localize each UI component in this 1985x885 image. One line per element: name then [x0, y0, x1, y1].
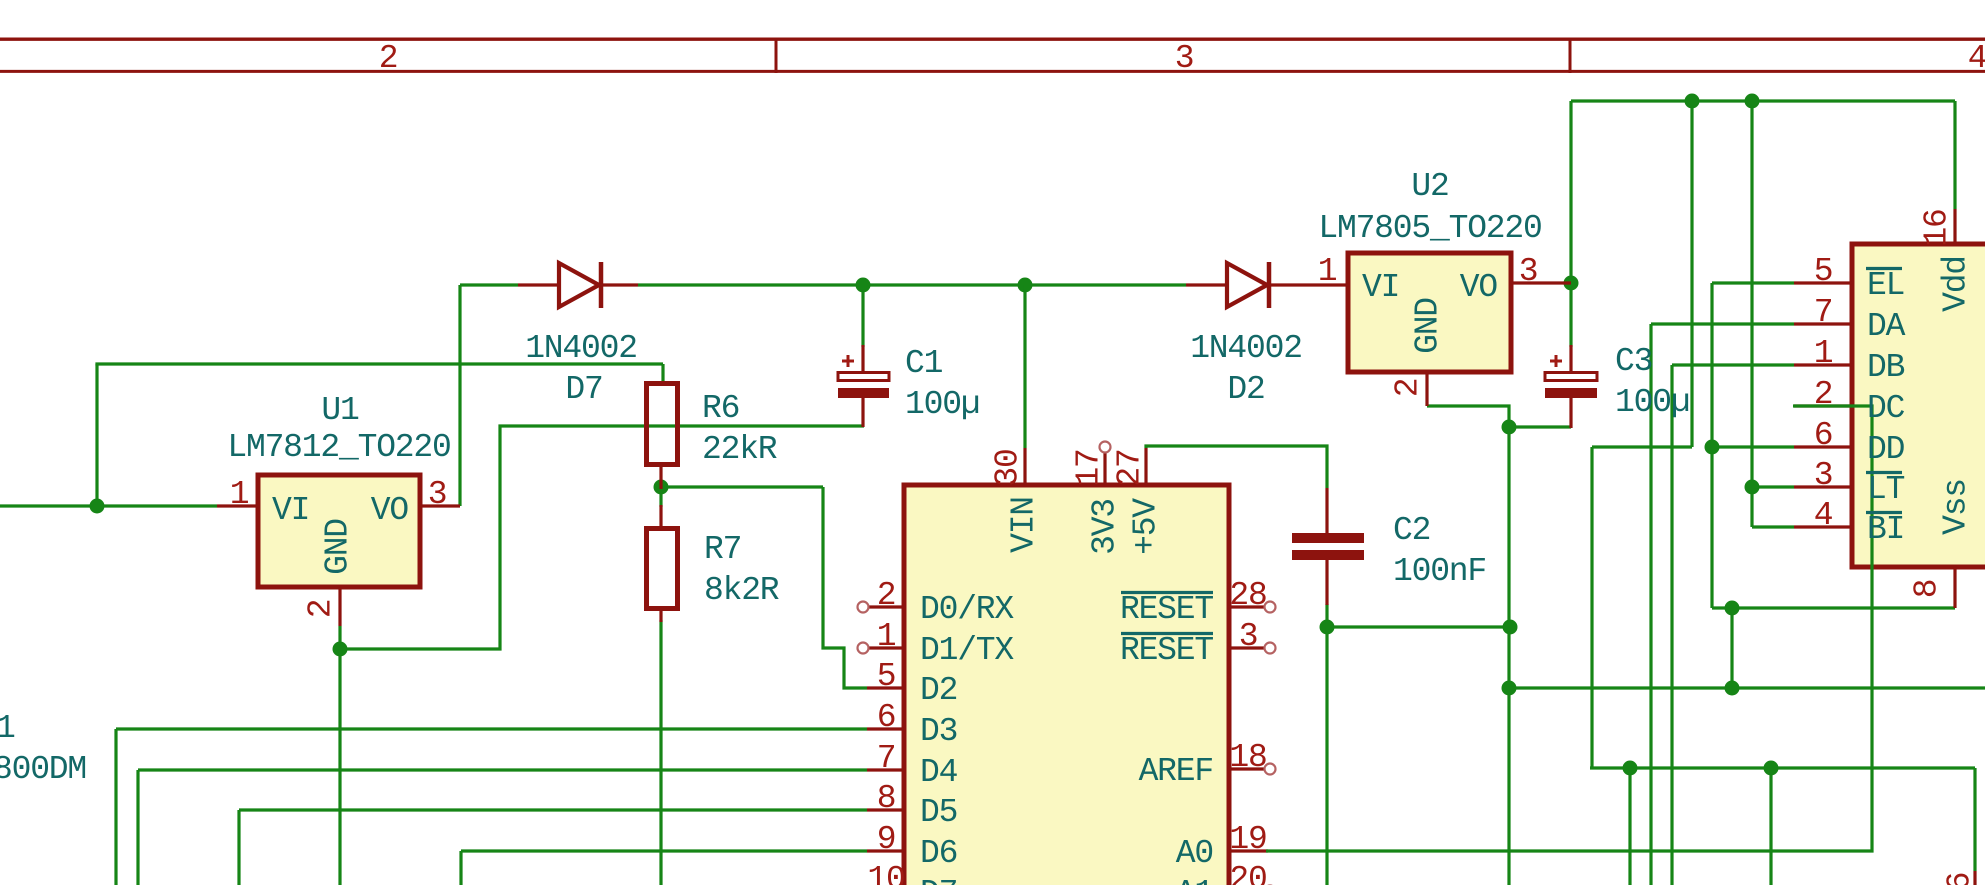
pin number 17 [1073, 449, 1106, 486]
open pin end 3V3 [1100, 442, 1111, 453]
label C3 reference [1615, 345, 1652, 378]
node junction U1 GND [333, 642, 348, 657]
pin number 4 U3 [1814, 499, 1833, 532]
pin number 28 [1229, 579, 1266, 612]
capacitor C3 100u polarized [1545, 345, 1597, 428]
label R6 value [702, 433, 776, 466]
pin number 9 [877, 823, 896, 856]
pin number 16 U3 [1921, 209, 1954, 246]
wire lower rail down to off-sheet pin [1973, 768, 1976, 871]
pin number 6 U3 [1814, 419, 1833, 452]
wire to R6 top [95, 362, 663, 365]
wire D7 cathode to D2 anode [638, 283, 1186, 286]
label D7 reference [565, 373, 602, 406]
pin name A0 right [1176, 837, 1213, 870]
node junction bottom rail [1725, 681, 1740, 696]
pin number 6 [877, 701, 896, 734]
wire down to MCU VIN [1023, 285, 1026, 448]
pin number 7 [877, 742, 896, 775]
wire bottom rail at pin5 row off right edge [1509, 686, 1985, 689]
wire Vss rail to bottom rail [1730, 608, 1733, 688]
pin number 3 [1239, 620, 1258, 653]
open pin end RESET 3 [1265, 643, 1276, 654]
pin name DC U3 [1867, 392, 1904, 425]
label U2 value [1318, 212, 1541, 245]
wire R6 top lead connect [661, 364, 664, 382]
pin 8 Vss stub U3 [1953, 567, 1956, 608]
pin number 2 U1 [305, 600, 338, 619]
label U1 value [227, 431, 450, 464]
IC U? 4511 display driver body [1852, 244, 1985, 567]
node junction 5V rail / LT-BI branch [1745, 94, 1760, 109]
wire to DA pin [1651, 322, 1794, 325]
overline EL [1866, 267, 1902, 270]
pin 3 VO stub U1 [420, 504, 460, 507]
pin number 18 [1229, 741, 1266, 774]
resistor R7 8k2R [647, 505, 678, 622]
label R7 reference [704, 533, 741, 566]
pin name VIN [1008, 497, 1041, 553]
wire D3 down off sheet [114, 729, 117, 885]
node junction lower rail A [1623, 761, 1638, 776]
pin name LT U3 [1867, 473, 1904, 506]
label C2 reference [1393, 514, 1430, 547]
pin number 2 U3 [1814, 378, 1833, 411]
pin name D4 [920, 756, 957, 789]
MCU left pin stubs [867, 607, 904, 851]
wire 5V branch down to DD row [1690, 101, 1693, 447]
pin name D1/TX [920, 634, 1013, 667]
pin 3 VO stub U2 [1511, 281, 1571, 284]
pin name DD U3 [1867, 433, 1904, 466]
pin number 3 U2 [1519, 255, 1538, 288]
wire DB down off sheet [1670, 365, 1673, 885]
wire to MCU D3 [116, 727, 867, 730]
wire down off sheet A [1628, 768, 1631, 885]
pin name D6 [920, 837, 957, 870]
capacitor C2 100nF [1292, 488, 1364, 605]
wire D6 down off sheet [459, 851, 462, 885]
label J1 reference partial [0, 712, 15, 745]
wire 5V rail to U3 Vdd pin16 [1953, 101, 1956, 209]
wire C2 bottom to node [1325, 604, 1328, 627]
node junction lower rail B [1764, 761, 1779, 776]
wire down to bottom rail [1590, 447, 1593, 768]
wire U1 GND pin down [338, 626, 341, 649]
node junction C1 plus [856, 278, 871, 293]
label D2 reference [1227, 373, 1264, 406]
wire R6 bottom to R7 top [659, 487, 662, 507]
U3 left pin stubs [1794, 283, 1852, 527]
overline LT [1866, 471, 1902, 474]
wire EL to Vss rail [1710, 283, 1713, 608]
pin name +5V [1130, 499, 1163, 555]
diode D2 1N4002 [1186, 262, 1348, 308]
pin name 3V3 [1089, 499, 1122, 555]
wire DD row left segment [1592, 445, 1692, 448]
overline RESET pin28 [1121, 591, 1213, 594]
pin number 1 U2 [1318, 255, 1337, 288]
pin number 5 [877, 660, 896, 693]
sheet column label 2 [379, 42, 398, 75]
pin name BI U3 [1867, 513, 1904, 546]
pin name D7 [920, 877, 957, 885]
sheet border ruler [0, 38, 1985, 74]
label R6 reference [702, 392, 739, 425]
wire VIN input to U1 VI [0, 504, 217, 507]
wire U2 GND down rail [1427, 406, 1509, 885]
pin name VI U1 [272, 494, 309, 527]
node junction DD pin / EL rail [1705, 440, 1720, 455]
wire to DD pin [1712, 445, 1794, 448]
pin name RESET right [1120, 634, 1213, 667]
pin number 7 U3 [1814, 296, 1833, 329]
sheet column label 4 [1968, 42, 1985, 75]
wire U3 DC pin to MCU A0 [1266, 406, 1872, 851]
wire C3 minus to GND rail [1509, 425, 1571, 428]
pin name Vss U3 [1940, 479, 1973, 535]
label D7 value [525, 332, 637, 365]
pin number 5 U3 [1814, 255, 1833, 288]
wire MCU +5V to C2 top [1146, 446, 1327, 488]
resistor R6 22kR [647, 384, 678, 490]
pin number 8 U3 [1911, 580, 1944, 599]
pin name DA U3 [1867, 310, 1904, 343]
wire to BI pin [1752, 525, 1794, 528]
wire GND down off sheet [338, 649, 341, 885]
wire D4 down off sheet [136, 770, 139, 885]
wire staircase to MCU pin5 D2 [823, 487, 867, 688]
wire down to C3 plus [1569, 283, 1572, 347]
pin name VO U2 [1460, 271, 1497, 304]
label C3 value [1615, 386, 1689, 419]
regulator U1 LM7812_TO220 body [258, 475, 420, 587]
pin number 19 [1229, 823, 1266, 856]
MCU U? Arduino body [904, 485, 1229, 885]
pin name VO U1 [371, 494, 408, 527]
pin name DB U3 [1867, 351, 1904, 384]
wire Vss rail [1712, 606, 1955, 609]
pin 2 GND stub U2 [1425, 372, 1428, 406]
pin name Vdd U3 [1940, 256, 1973, 312]
node junction VIN [1018, 278, 1033, 293]
wire to D7 [460, 283, 518, 286]
pin number 6 off-sheet component [1944, 873, 1977, 885]
node junction U2 VO / C3 plus [1564, 276, 1579, 291]
node junction C3 minus [1502, 420, 1517, 435]
label J1 value partial [0, 753, 86, 786]
pin number 1 U3 [1814, 337, 1833, 370]
wire 5V branch to LT/BI [1750, 101, 1753, 527]
pin name D0/RX [920, 593, 1013, 626]
pin name AREF right [1139, 755, 1213, 788]
pin name GND U1 [322, 519, 355, 575]
pin name D5 [920, 796, 957, 829]
pin number 8 [877, 782, 896, 815]
pin 16 Vdd stub U3 [1953, 209, 1956, 244]
wire down off sheet from C2 node [1325, 627, 1328, 885]
node junction at U1 VI [90, 499, 105, 514]
node junction GND rail / C2 [1503, 620, 1518, 635]
pin number 2 [877, 579, 896, 612]
open pin end D1/TX [858, 643, 869, 654]
pin number 2 U2 [1392, 379, 1425, 398]
pin number 3 U3 [1814, 459, 1833, 492]
pin number 20 [1229, 863, 1266, 885]
node junction 5V rail / DD-EL branch [1685, 94, 1700, 109]
label U1 reference [321, 394, 358, 427]
wire to LT pin [1752, 485, 1794, 488]
open pin end RESET 28 [1265, 602, 1276, 613]
MCU top pin stubs 30 17 27 [1025, 448, 1146, 485]
label C2 value [1393, 555, 1486, 588]
pin name GND U2 [1412, 298, 1445, 354]
label D2 value [1190, 332, 1302, 365]
wire down to C1 plus [861, 285, 864, 347]
wire to MCU D5 [239, 808, 867, 811]
label C1 reference [905, 347, 942, 380]
wire 5V top rail [1571, 99, 1955, 102]
diode D7 1N4002 [518, 262, 638, 308]
pin name D2 [920, 674, 957, 707]
pin number 1 [877, 620, 896, 653]
wire U2 VO up to 5V rail [1569, 101, 1572, 283]
pin number 10 [867, 863, 904, 885]
node junction R6/R7 [654, 480, 669, 495]
wire D5 down off sheet [237, 810, 240, 885]
wire DA down off sheet [1649, 324, 1652, 885]
pin name RESET right [1120, 593, 1213, 626]
pin number 30 [992, 449, 1025, 486]
wire up from VI node to R6 feed [95, 364, 98, 506]
pin number 27 [1114, 449, 1147, 486]
label R7 value [704, 574, 778, 607]
node junction LT pin [1745, 480, 1760, 495]
open pin end D0/RX [858, 602, 869, 613]
pin stub off-sheet component [1973, 871, 1976, 885]
pin number 3 U1 [428, 478, 447, 511]
pin name A1 right [1176, 877, 1213, 885]
wire R6-R7 node to MCU D2 staircase [661, 485, 823, 488]
overline RESET pin3 [1121, 632, 1213, 635]
label C1 value [905, 388, 979, 421]
capacitor C1 100u polarized [838, 345, 889, 427]
pin 2 GND stub U1 [338, 587, 341, 626]
sheet column label 3 [1175, 42, 1194, 75]
wire U1 VO up to D7 anode [458, 285, 461, 506]
wire C2 node to GND rail [1327, 625, 1510, 628]
node junction C2 bottom [1320, 620, 1335, 635]
open pin end AREF [1265, 764, 1276, 775]
regulator U2 LM7805_TO220 body [1348, 253, 1511, 372]
wire to DB pin [1672, 363, 1794, 366]
wire to EL pin [1712, 281, 1794, 284]
pin 1 VI stub U1 [217, 504, 258, 507]
wire to MCU D6 [461, 849, 867, 852]
node junction Vss rail [1725, 601, 1740, 616]
label U2 reference [1411, 170, 1448, 203]
node junction GND rail / bottom rail [1502, 681, 1517, 696]
pin number 1 U1 [230, 478, 249, 511]
overline BI [1866, 511, 1902, 514]
wire lower rail [1590, 766, 1975, 769]
pin name D3 [920, 715, 957, 748]
wire R7 bottom down off sheet [659, 620, 662, 885]
wire to MCU D4 [138, 768, 867, 771]
wire U1 GND to C1 minus [340, 426, 864, 649]
wire down off sheet B [1769, 768, 1772, 885]
pin name EL U3 [1867, 269, 1904, 302]
pin name VI U2 [1362, 271, 1399, 304]
MCU right pin stubs [1229, 607, 1268, 851]
